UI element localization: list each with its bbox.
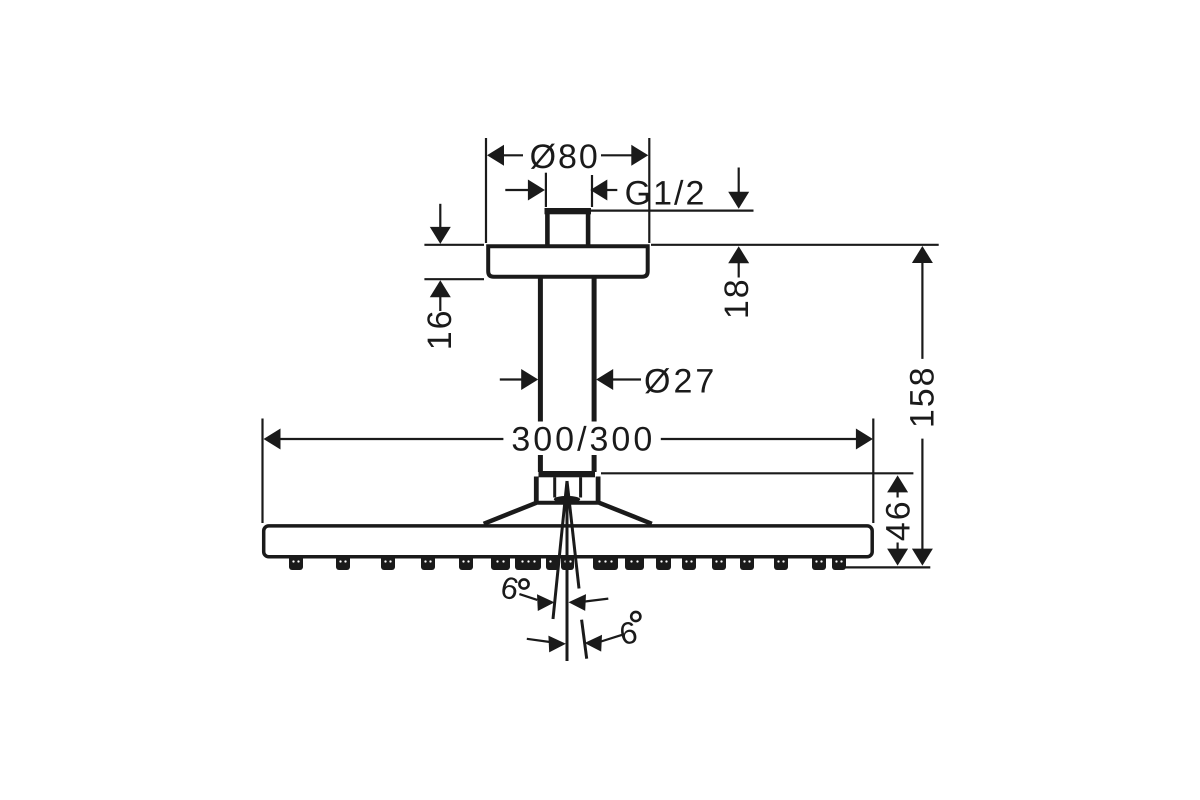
flange top extension line right (18/158) [651, 244, 939, 246]
svg-text:Ø27: Ø27 [644, 363, 717, 401]
dimension 18 label [718, 277, 756, 319]
spray axis left line [553, 481, 567, 619]
dimension 46 up arrow [887, 475, 908, 497]
upper 6 degree annotation [519, 594, 608, 611]
dimension 46 label [880, 499, 918, 541]
head dome trapezoid [484, 503, 652, 524]
dimension Ø80 extension line right [648, 138, 650, 243]
lower degree ring [631, 612, 640, 621]
dimension G1/2 arrows [505, 180, 617, 201]
nozzle white specks [292, 560, 842, 562]
svg-text:Ø80: Ø80 [530, 138, 600, 176]
shower arm pipe [540, 277, 594, 472]
dimension 46/158 bottom reference line [845, 566, 930, 568]
dimension 300/300 extension line left [261, 419, 263, 524]
pipe nut body [534, 477, 601, 504]
dimension 46 top reference line [601, 472, 913, 474]
outlet ellipse [554, 496, 580, 503]
svg-text:18: 18 [718, 277, 756, 319]
ceiling flange [488, 246, 648, 277]
flange bottom extension line left (16) [424, 278, 484, 280]
svg-text:158: 158 [904, 365, 942, 428]
svg-text:G1/2: G1/2 [625, 175, 707, 213]
dimension G1/2 extension line left [545, 173, 547, 207]
dimension 16 up arrow [430, 280, 451, 311]
svg-text:46: 46 [880, 499, 918, 541]
spray axis right line upper [567, 481, 579, 589]
dimension 16 down arrow [430, 204, 451, 244]
dimension Ø80 extension line left [485, 138, 487, 243]
svg-text:300/300: 300/300 [511, 421, 655, 459]
dimension 16 label [421, 308, 459, 350]
dimension 300/300 label mask [506, 422, 658, 456]
shower head plate [264, 526, 873, 557]
dimension G1/2 extension line right [591, 175, 593, 207]
dimension 300/300 extension line right [872, 419, 874, 524]
svg-text:16: 16 [421, 308, 459, 350]
dimension 158 line [912, 246, 933, 566]
G1/2 label underline [591, 210, 754, 212]
pipe nut top bar [539, 471, 596, 477]
spray axis center line [566, 481, 569, 661]
connector G1/2 thread square [545, 208, 592, 247]
dimension Ø27 arrows [500, 369, 641, 390]
spray nozzle teeth row [289, 555, 846, 570]
dimension 158 label [904, 365, 942, 428]
upper degree ring [519, 579, 528, 588]
dimension 300/300 line and arrows [264, 429, 873, 450]
spray axis right line lower [582, 620, 587, 659]
dimension 18 down arrow [728, 168, 749, 209]
dimension 18 up arrow [728, 246, 749, 277]
nut inner square [555, 477, 581, 497]
upper 6 degree label [498, 569, 522, 607]
svg-text:6: 6 [498, 569, 522, 607]
dimension Ø80 line and arrows [487, 145, 648, 166]
flange top extension line left (16) [424, 244, 484, 246]
lower 6 degree annotation [527, 635, 622, 653]
lower 6 degree label [616, 614, 640, 652]
dimension 46 down arrow [887, 543, 908, 566]
